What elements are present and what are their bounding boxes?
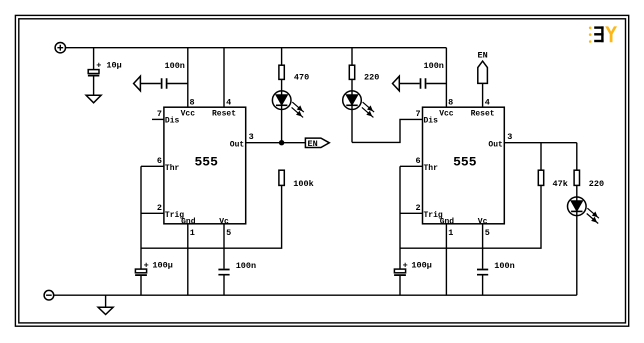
svg-text:470: 470 <box>294 72 309 82</box>
U1 pin 7 stub <box>152 118 164 120</box>
svg-text:6: 6 <box>157 156 162 166</box>
svg-text:100n: 100n <box>424 61 444 71</box>
svg-text:5: 5 <box>226 228 231 238</box>
input port arrow 2 <box>393 76 400 91</box>
resistor R2 220 <box>349 65 354 79</box>
value label 470 <box>294 72 309 82</box>
negative supply terminal <box>44 290 54 300</box>
wire ground bottom rail <box>54 294 577 296</box>
value label 10µ <box>96 60 122 70</box>
LED D1 <box>272 91 303 118</box>
svg-text:8: 8 <box>190 97 195 107</box>
value label 47k <box>553 179 568 189</box>
svg-text:EN: EN <box>307 139 317 149</box>
svg-text:555: 555 <box>194 155 218 170</box>
wire U1 pin4 to rail <box>223 48 225 107</box>
wire port1 to C2 <box>140 83 160 85</box>
U2 pin 8 number <box>448 97 453 107</box>
capacitor C1 10µ polarized <box>88 70 99 96</box>
net flag EN output <box>305 138 329 149</box>
wire node to EN flag <box>282 142 306 144</box>
ground <box>86 95 101 103</box>
net label EN <box>477 51 487 61</box>
wire port2 to C5 <box>399 83 419 85</box>
U2 pin 1 number <box>448 228 453 238</box>
U2 pin 4 number <box>485 97 490 107</box>
value label 100n <box>236 261 256 271</box>
svg-text:+: + <box>403 260 408 270</box>
svg-text:Dis: Dis <box>424 117 439 126</box>
U1 pin 8 number <box>190 97 195 107</box>
svg-text:8: 8 <box>448 97 453 107</box>
U2 pin 5 number <box>485 228 490 238</box>
capacitor C2 100n <box>162 78 188 88</box>
wire R2 to LED2 <box>351 79 353 142</box>
IC U1 555 timer <box>164 107 246 226</box>
wire U1 pin8 to rail <box>187 48 189 107</box>
svg-text:Out: Out <box>488 140 503 149</box>
U1 pin 4 number <box>226 97 231 107</box>
svg-text:Out: Out <box>230 140 245 149</box>
wire R3 down and left to RC node <box>141 185 282 248</box>
svg-text:Vcc: Vcc <box>439 109 454 118</box>
resistor R4 47k <box>538 170 543 185</box>
svg-text:EN: EN <box>477 51 487 61</box>
wire U1 Out stub <box>246 142 282 144</box>
svg-text:Vcc: Vcc <box>181 109 196 118</box>
U1 pin 5 number <box>226 228 231 238</box>
wire rail to R2 <box>351 48 353 65</box>
svg-text:2: 2 <box>415 203 420 213</box>
svg-text:Dis: Dis <box>165 117 180 126</box>
input port arrow 1 <box>134 76 141 91</box>
value label 220 <box>364 72 379 82</box>
svg-text:7: 7 <box>415 109 420 119</box>
LED D2 <box>343 91 374 118</box>
wire rail to R1 <box>281 48 283 65</box>
svg-text:4: 4 <box>226 97 231 107</box>
value label 100n <box>424 61 444 71</box>
net flag EN input <box>478 61 488 83</box>
U1 pin 7 number <box>157 109 162 119</box>
capacitor C7 100n <box>477 270 488 296</box>
svg-text:47k: 47k <box>553 179 568 189</box>
wire left RC node vertical <box>140 166 142 269</box>
value label 100µ <box>403 260 432 270</box>
svg-text:100n: 100n <box>236 261 256 271</box>
ground <box>98 295 113 314</box>
wire U1 pin1 to rail <box>187 224 189 295</box>
svg-text:5: 5 <box>485 228 490 238</box>
svg-text:1: 1 <box>190 228 195 238</box>
value label 100n <box>494 261 514 271</box>
svg-text:3: 3 <box>507 132 512 142</box>
svg-text:Reset: Reset <box>212 109 236 118</box>
U2 pin 7 number <box>415 109 420 119</box>
junction node out1 <box>279 140 284 145</box>
capacitor C4 100n <box>218 270 229 296</box>
svg-text:6: 6 <box>415 156 420 166</box>
wire LED2 to U2 Dis <box>352 119 423 142</box>
U1 pin 3 number <box>249 132 254 142</box>
wire 10µ branch <box>93 48 95 70</box>
wire U1 Trig <box>141 212 164 214</box>
svg-text:100n: 100n <box>165 61 185 71</box>
wire out corner to R5 <box>576 143 578 171</box>
wire U2 Trig <box>400 212 423 214</box>
svg-text:100k: 100k <box>293 179 313 189</box>
wire U2 Out stub <box>504 142 577 144</box>
IC U2 555 timer <box>423 107 505 226</box>
svg-text:220: 220 <box>589 179 604 189</box>
svg-text:Thr: Thr <box>165 164 180 173</box>
U2 pin 2 number <box>415 203 420 213</box>
U1 pin 1 number <box>190 228 195 238</box>
wire V+ top rail <box>66 47 447 49</box>
value label 100n <box>165 61 185 71</box>
U2 pin 3 number <box>507 132 512 142</box>
wire U1 Thr <box>141 165 164 167</box>
wire U2 pin1 to rail <box>445 224 447 295</box>
svg-text:1: 1 <box>448 228 453 238</box>
wire R5 to LED3 and rail <box>576 185 578 295</box>
svg-text:4: 4 <box>485 97 490 107</box>
value label 100µ <box>144 260 173 270</box>
svg-text:Reset: Reset <box>471 109 495 118</box>
svg-text:100µ: 100µ <box>152 260 172 270</box>
wire U2 pin5 to C7 <box>482 224 484 269</box>
capacitor C3 100µ polarized <box>135 269 147 295</box>
positive supply terminal <box>55 43 65 53</box>
svg-text:+: + <box>144 260 149 270</box>
svg-text:7: 7 <box>157 109 162 119</box>
value label 220 <box>589 179 604 189</box>
wire U2 Thr <box>400 165 423 167</box>
U1 pin 6 number <box>157 156 162 166</box>
svg-text:2: 2 <box>157 203 162 213</box>
wire R1 to LED1 and down to out node <box>281 79 283 142</box>
svg-text:100µ: 100µ <box>411 260 431 270</box>
svg-text:220: 220 <box>364 72 379 82</box>
wire out to R4 <box>540 143 542 171</box>
svg-text:3: 3 <box>249 132 254 142</box>
resistor R1 470 <box>279 65 284 79</box>
capacitor C5 100n <box>421 78 447 88</box>
U1 pin 2 number <box>157 203 162 213</box>
wire right RC node vertical <box>399 166 401 269</box>
wire U1 pin5 to C4 <box>223 224 225 269</box>
wire R4 down and left to RC node <box>400 185 541 248</box>
svg-text:100n: 100n <box>494 261 514 271</box>
resistor R3 100k <box>279 170 284 185</box>
wire U2 pin8 to rail <box>445 48 447 107</box>
value label 100k <box>293 179 313 189</box>
wire EN flag to U2 pin4 <box>482 83 484 107</box>
svg-text:+ 10µ: + 10µ <box>96 60 122 70</box>
capacitor C6 100µ polarized <box>394 269 406 295</box>
U2 pin 6 number <box>415 156 420 166</box>
resistor R5 220 <box>574 170 579 185</box>
svg-text:Thr: Thr <box>424 164 439 173</box>
LED D3 <box>568 197 599 224</box>
svg-text:555: 555 <box>453 155 477 170</box>
